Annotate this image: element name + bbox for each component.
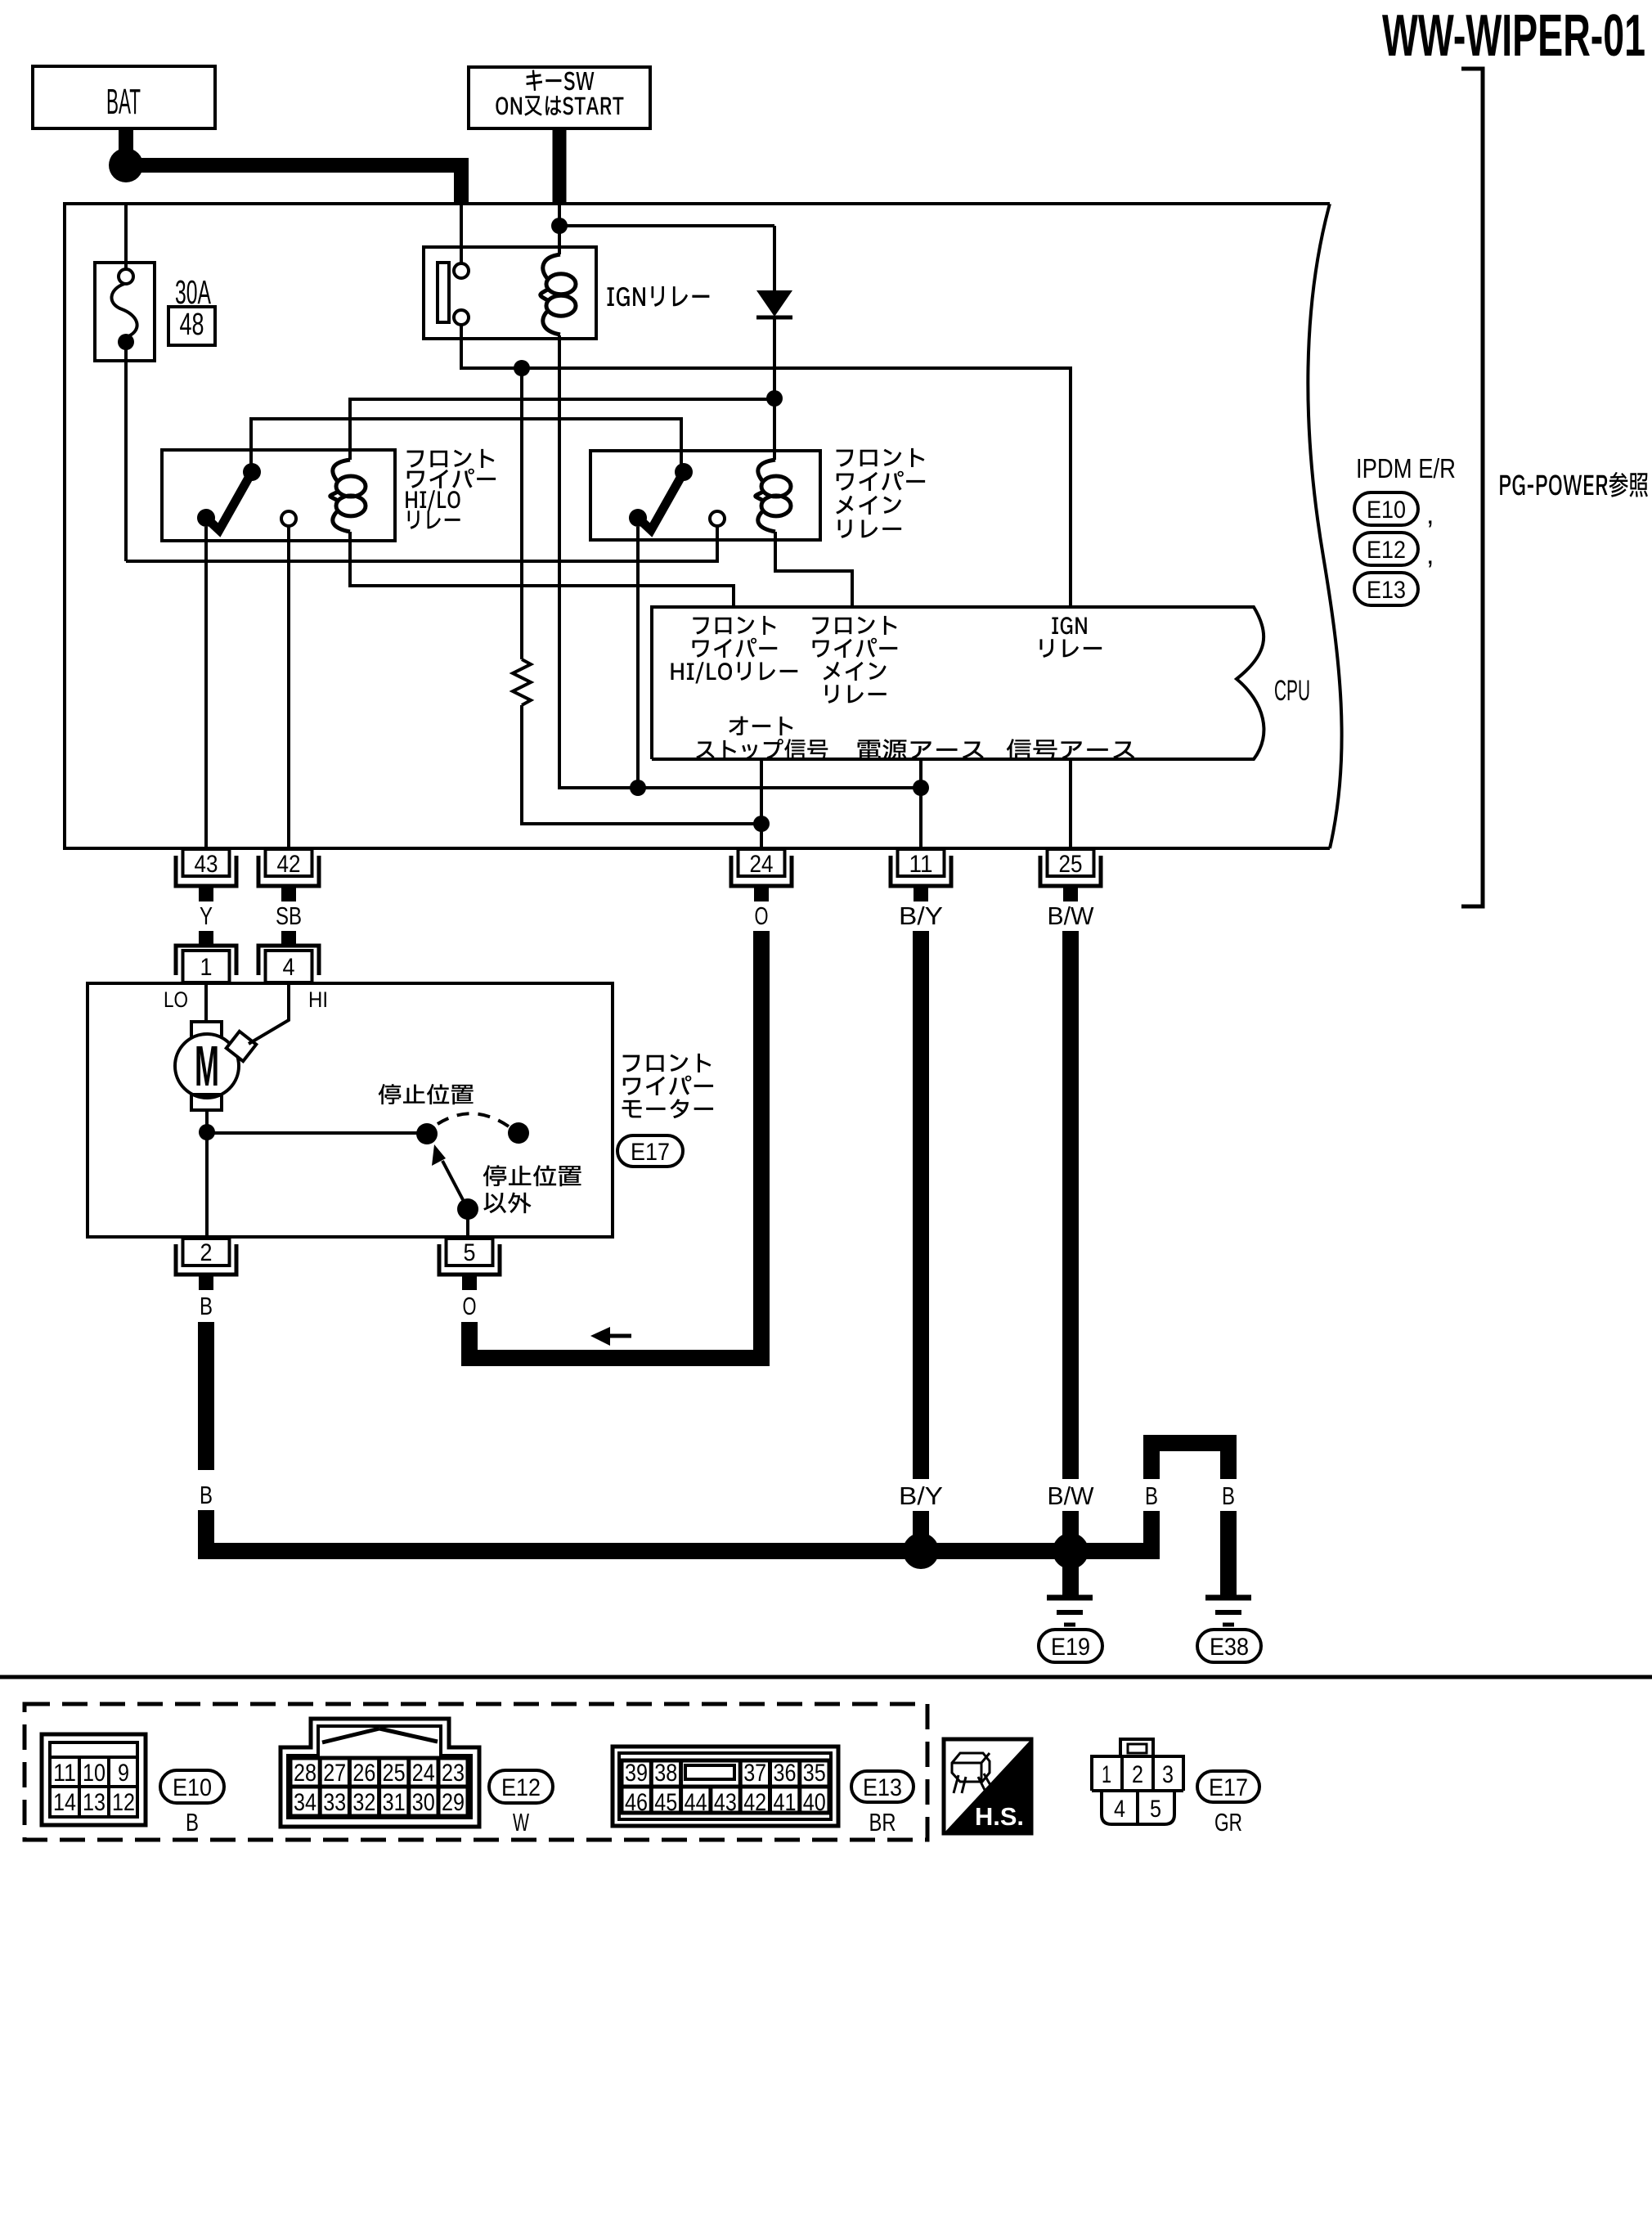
svg-text:38: 38 (654, 1760, 677, 1787)
svg-text:44: 44 (685, 1789, 707, 1816)
svg-text:H.S.: H.S. (975, 1802, 1024, 1831)
svg-text:WW-WIPER-01: WW-WIPER-01 (1382, 3, 1645, 69)
svg-text:45: 45 (654, 1789, 677, 1816)
connector face E10 (42, 1734, 146, 1825)
bracket PG-POWER (1461, 69, 1483, 906)
relay IGN coil (541, 254, 560, 335)
svg-text:B: B (200, 1481, 213, 1509)
connector face E17 (1120, 1739, 1153, 1756)
svg-text:E12: E12 (1367, 537, 1406, 564)
wire thick E19 ground stub (1062, 1551, 1079, 1596)
ground E38 symbol (1205, 1595, 1251, 1601)
resistor R1 (513, 659, 531, 705)
wire thick auto-stop O vertical (753, 931, 770, 1366)
diode D1 (756, 290, 792, 317)
label CPU auto stop signal (729, 716, 792, 735)
label CPU input IGN relay (1052, 617, 1086, 634)
svg-text:B/Y: B/Y (899, 901, 943, 930)
wire fuse to main contact y686 (126, 526, 717, 561)
svg-text:25: 25 (1059, 851, 1083, 878)
wire main coil to CPU (775, 532, 852, 607)
connector ref E17 footer (1197, 1771, 1259, 1802)
connector ref E13 (1354, 573, 1418, 605)
svg-text:36: 36 (774, 1760, 797, 1787)
connector ref E19 (1039, 1630, 1102, 1662)
svg-text:34: 34 (294, 1789, 316, 1816)
wire IGN contact to CPU IGN-relay input (461, 325, 1071, 607)
svg-text:27: 27 (323, 1760, 346, 1787)
svg-text:37: 37 (743, 1760, 766, 1787)
connector ref E10 footer (160, 1770, 224, 1803)
svg-text:E13: E13 (1367, 577, 1406, 604)
svg-text:B: B (1222, 1481, 1235, 1510)
svg-text:B/W: B/W (1048, 1481, 1095, 1510)
wire HI to angled brush (249, 983, 289, 1044)
wire thick jumper left leg upper (1143, 1435, 1160, 1479)
wire resistor branch lower (522, 705, 761, 824)
svg-text:GR: GR (1214, 1808, 1242, 1837)
junction main-arm/ground (630, 780, 646, 796)
wire coil top feed y488 (350, 399, 774, 460)
svg-text:E17: E17 (1209, 1774, 1248, 1801)
wire thick BAT to IPDM (135, 165, 461, 204)
pin 5 front wiper motor (439, 1244, 500, 1275)
wire thick ground jumper top (1143, 1435, 1237, 1451)
wire main arm down (636, 527, 640, 788)
svg-text:41: 41 (774, 1789, 797, 1816)
svg-text:42: 42 (743, 1789, 766, 1816)
wire thick park from pin5 (461, 1322, 478, 1366)
svg-text:13: 13 (83, 1789, 105, 1816)
connector face E13 (613, 1747, 838, 1826)
svg-text:48: 48 (180, 308, 204, 342)
wire fuse output (124, 349, 128, 561)
hand symbol H.S. (944, 1739, 1031, 1833)
svg-text:B/Y: B/Y (899, 1481, 943, 1510)
svg-text:31: 31 (383, 1789, 406, 1816)
relay IGN contact bar (438, 263, 449, 322)
svg-text:30: 30 (412, 1789, 435, 1816)
relay IGN contact upper terminal (454, 263, 469, 278)
motor brush lower (191, 1095, 222, 1110)
label CPU input main relay (812, 616, 896, 635)
dashed group box (25, 1704, 927, 1840)
pin 42 (258, 856, 319, 886)
svg-text:26: 26 (352, 1760, 375, 1787)
svg-text:11: 11 (909, 851, 933, 878)
wire park arm to pin 5 (466, 1209, 469, 1237)
svg-text:B/W: B/W (1048, 901, 1095, 930)
svg-text:3: 3 (1162, 1761, 1174, 1788)
pin 43 (176, 856, 236, 886)
svg-text:Y: Y (200, 901, 213, 930)
svg-text:11: 11 (53, 1760, 76, 1787)
label stop position (379, 1084, 474, 1104)
wire LO to motor (204, 983, 208, 1022)
svg-text:E10: E10 (1367, 497, 1406, 524)
relay HI/LO coil (330, 460, 350, 532)
park switch dashed throw (438, 1113, 509, 1126)
junction B/W ground bus (1053, 1533, 1089, 1569)
svg-text:42: 42 (277, 851, 301, 878)
svg-text:39: 39 (625, 1760, 648, 1787)
pin 2 front wiper motor (176, 1244, 236, 1275)
label IGN relay (608, 286, 710, 307)
power source box BAT (33, 66, 215, 128)
svg-text:,: , (1426, 499, 1434, 530)
connector ref E10 (1354, 492, 1418, 525)
svg-text:2: 2 (1132, 1761, 1143, 1788)
CPU box outline (652, 607, 1264, 759)
IPDM E/R box outline (65, 204, 1342, 848)
wire thick B/W upper (1062, 931, 1079, 1479)
svg-text:E19: E19 (1051, 1634, 1090, 1661)
svg-text:E38: E38 (1210, 1634, 1249, 1661)
ground E19 symbol (1047, 1595, 1093, 1601)
wire motor common to pin 2 (205, 1132, 209, 1237)
svg-text:24: 24 (412, 1760, 435, 1787)
svg-text:10: 10 (83, 1760, 105, 1787)
wire HI/LO coil to CPU (350, 532, 734, 607)
connector ref E38 (1197, 1630, 1261, 1662)
junction diode/coils node (766, 390, 783, 407)
svg-text:B: B (200, 1292, 213, 1320)
label front wiper motor (623, 1054, 712, 1072)
relay HI/LO switch arm (206, 472, 252, 530)
wire resistor branch upper (520, 368, 523, 659)
svg-text:43: 43 (714, 1789, 737, 1816)
junction auto-stop node (753, 816, 770, 832)
connector ref E13 footer (851, 1771, 914, 1802)
connector ref E12 footer (489, 1770, 553, 1803)
wire HI/LO contact to pin 42 (287, 526, 290, 848)
wire thick B from pin2 upper (198, 1322, 214, 1470)
power source box key switch ON/START (469, 67, 650, 128)
wire thick BAT down-stub (119, 128, 133, 165)
label PG-POWER reference (1500, 472, 1648, 497)
arrow current direction (590, 1327, 610, 1346)
relay main fixed contact (710, 511, 725, 526)
park switch contact stop-position (416, 1123, 438, 1144)
wire diode cathode down (773, 317, 776, 398)
motor M1 body (175, 1034, 239, 1098)
label front wiper HI/LO relay (407, 449, 495, 468)
wire diode anode (773, 226, 776, 290)
wire thick jumper right leg upper (1220, 1435, 1237, 1479)
svg-text:HI: HI (308, 987, 328, 1012)
wire thick park-signal horizontal (461, 1350, 770, 1366)
svg-text:5: 5 (464, 1239, 476, 1266)
pin 24 (731, 856, 792, 886)
svg-text:29: 29 (442, 1789, 465, 1816)
junction resistor branch (514, 360, 530, 376)
front wiper motor box (88, 983, 613, 1237)
wire thick key-SW to IPDM (553, 128, 567, 204)
label front wiper main relay (837, 448, 925, 467)
svg-text:CPU: CPU (1274, 675, 1310, 707)
svg-text:BR: BR (869, 1808, 896, 1837)
separator line (0, 1675, 1652, 1679)
svg-text:12: 12 (112, 1789, 135, 1816)
svg-text:E12: E12 (501, 1774, 541, 1801)
relay HI/LO fixed contact (281, 511, 296, 526)
svg-text:9: 9 (118, 1760, 129, 1787)
park switch moving arm (442, 1161, 468, 1209)
svg-text:4: 4 (283, 954, 295, 981)
wire HI/LO arm to pin 43 (204, 527, 208, 848)
relay main switch arm (638, 472, 684, 530)
wire main coil feed (773, 398, 776, 460)
connector face E12 (281, 1719, 479, 1827)
svg-text:IPDM E/R: IPDM E/R (1356, 453, 1456, 483)
svg-text:BAT: BAT (106, 82, 141, 122)
svg-text:14: 14 (53, 1789, 76, 1816)
svg-text:40: 40 (803, 1789, 826, 1816)
relay front wiper main box (590, 451, 820, 540)
svg-text:M: M (195, 1034, 219, 1098)
svg-text:B: B (186, 1808, 199, 1837)
motor brush upper (191, 1022, 222, 1037)
svg-text:LO: LO (164, 987, 188, 1012)
svg-text:O: O (463, 1292, 477, 1320)
junction BAT node (109, 148, 143, 182)
svg-text:35: 35 (803, 1760, 826, 1787)
svg-text:W: W (513, 1808, 530, 1837)
svg-text:46: 46 (625, 1789, 648, 1816)
svg-text:5: 5 (1150, 1796, 1161, 1823)
park switch contact off-position (508, 1122, 529, 1144)
label CPU power ground (858, 739, 984, 760)
relay main coil (756, 460, 775, 532)
wire power-ground to pin 11 (919, 759, 923, 848)
label stop position other (483, 1165, 581, 1186)
svg-text:33: 33 (323, 1789, 346, 1816)
svg-text:43: 43 (195, 851, 218, 878)
svg-text:24: 24 (750, 851, 774, 878)
svg-text:23: 23 (442, 1760, 465, 1787)
fuse 30A box (95, 263, 155, 361)
svg-text:,: , (1426, 539, 1434, 570)
svg-text:E17: E17 (631, 1139, 670, 1166)
wire coil node to diode (559, 224, 774, 227)
wire IGN coil to ground bus (559, 335, 921, 788)
junction B/Y ground bus (903, 1533, 939, 1569)
junction power-ground node (913, 780, 929, 796)
wire thick ground bus (198, 1543, 1160, 1559)
svg-text:E10: E10 (173, 1774, 212, 1801)
svg-text:SB: SB (276, 901, 302, 930)
relay IGN box (424, 247, 596, 339)
svg-text:2: 2 (200, 1239, 213, 1266)
wire thick B/Y stub (913, 1511, 929, 1536)
label CPU signal ground (1007, 739, 1135, 760)
pin 1 front wiper motor (199, 931, 213, 946)
wire key-SW into IGN coil (558, 204, 561, 254)
wire thick B/W stub (1062, 1511, 1079, 1536)
junction motor common (199, 1124, 215, 1140)
svg-text:1: 1 (200, 954, 213, 981)
wire thick B from pin2 lower (198, 1510, 214, 1559)
relay front wiper HI/LO box (162, 450, 395, 541)
svg-text:B: B (1145, 1481, 1158, 1510)
pin 25 (1040, 856, 1101, 886)
pin 11 (891, 856, 951, 886)
fuse number box 48 (168, 307, 215, 345)
connector ref E12 (1354, 533, 1418, 565)
wire fuse feed (124, 204, 128, 270)
wire thick jumper left leg lower (1143, 1511, 1160, 1551)
svg-text:32: 32 (352, 1789, 375, 1816)
label CPU input HI/LO relay (693, 616, 775, 635)
svg-text:4: 4 (1114, 1796, 1125, 1823)
wire park common (207, 1131, 419, 1135)
relay IGN contact lower terminal (454, 310, 469, 325)
wire thick B/Y upper (913, 931, 929, 1479)
svg-text:1: 1 (1102, 1761, 1111, 1788)
pin 4 front wiper motor (281, 931, 296, 946)
wire motor to park switch (205, 1110, 209, 1132)
park switch contact pivot (457, 1198, 478, 1220)
wire BAT to IGN relay contact (460, 204, 463, 263)
wire switch common y512 (251, 419, 681, 466)
wire signal-ground to pin 25 (1069, 759, 1072, 848)
svg-text:25: 25 (383, 1760, 406, 1787)
wire thick jumper right leg (1220, 1511, 1237, 1596)
fuse element (119, 269, 133, 284)
svg-text:28: 28 (294, 1760, 316, 1787)
svg-text:O: O (755, 901, 769, 930)
motor brush angled (227, 1032, 256, 1061)
wire auto-stop to pin 24 (760, 759, 763, 848)
connector ref E17 (617, 1135, 683, 1167)
svg-text:E13: E13 (863, 1774, 902, 1801)
junction key-SW/diode node (551, 218, 568, 234)
